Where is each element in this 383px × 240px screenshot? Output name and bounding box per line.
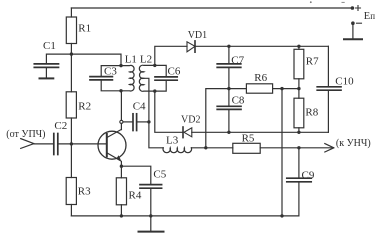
capacitor C6: [155, 77, 177, 80]
wire R3 bottom lead: [70, 205, 72, 216]
node collector ring: [120, 120, 123, 123]
wire R1 bottom lead: [70, 44, 72, 55]
wire C1 to ground: [45, 68, 47, 78]
svg-text:R4: R4: [129, 190, 142, 202]
node supply minus terminal: [351, 21, 355, 25]
ground bottom: [139, 231, 164, 233]
node C4 tap junction: [147, 120, 150, 123]
wire C3 loop: [101, 66, 121, 91]
svg-text:VD1: VD1: [188, 30, 207, 41]
svg-text:VD2: VD2: [181, 115, 200, 126]
wire ring to C4: [123, 121, 133, 123]
svg-text:C4: C4: [133, 101, 146, 113]
svg-text:C7: C7: [231, 54, 244, 66]
wire C9 bottom lead: [298, 182, 300, 216]
wire VD2 to right corner: [192, 131, 329, 133]
wire node to R2: [70, 54, 72, 92]
node takeoff to L3 wire: [204, 146, 207, 149]
wire C1 branch: [46, 54, 71, 63]
wire emitter to R4: [120, 166, 122, 178]
wire bleeder down to ground rail: [281, 89, 283, 216]
wire R7 top lead: [298, 46, 300, 49]
wire VD1 to right: [195, 45, 328, 47]
node base junction: [70, 142, 73, 145]
plus sign: [356, 6, 361, 11]
wire bottom ground rail: [71, 215, 299, 217]
node bleeder junction: [280, 87, 283, 90]
svg-text:R6: R6: [254, 72, 267, 84]
wire R6 right lead: [273, 88, 299, 90]
node R8 bottom junction: [297, 131, 300, 134]
minus sign: [357, 22, 362, 24]
wire R8 bottom lead: [298, 128, 300, 133]
wire R6 left lead: [229, 88, 247, 90]
svg-text:R3: R3: [78, 186, 91, 198]
svg-text:C2: C2: [54, 120, 67, 132]
capacitor C2: [54, 134, 58, 155]
wire tank2 bottom to VD2: [155, 91, 183, 132]
wire C5 bottom lead: [150, 189, 152, 216]
resistor R5: [233, 143, 260, 153]
resistor R6: [246, 84, 272, 93]
node R1/C1/R2 junction: [70, 52, 73, 55]
node bleeder at rail: [280, 214, 283, 217]
node C5 at rail: [149, 214, 152, 217]
inductor L1: [121, 65, 134, 91]
output arrow: [325, 144, 334, 152]
wire R2 bottom lead: [70, 118, 72, 144]
node tank2 top: [153, 64, 156, 67]
wire tank2 top to VD1: [155, 46, 187, 65]
node tank2 bottom: [153, 89, 156, 92]
scan speck: [342, 1, 344, 3]
node R4 at rail: [120, 214, 123, 217]
svg-text:C10: C10: [335, 75, 354, 87]
wire tap to L2 center: [144, 78, 149, 122]
wire audio takeoff from C7/C8 node: [206, 89, 229, 148]
wire input to C2: [34, 143, 54, 145]
wire C6 branch: [155, 65, 166, 91]
node C7 top junction: [227, 45, 230, 48]
wire top supply rail: [71, 7, 352, 9]
node tank1 bottom: [119, 89, 122, 92]
wire R7 bottom lead: [298, 79, 300, 89]
svg-text:C5: C5: [153, 169, 166, 181]
capacitor C1: [34, 64, 58, 68]
svg-text:Еп: Еп: [364, 11, 375, 22]
capacitor C8: [217, 89, 241, 133]
capacitor C4: [133, 114, 137, 131]
capacitor C10: [317, 87, 341, 90]
svg-text:C6: C6: [168, 66, 181, 78]
svg-text:R8: R8: [305, 107, 318, 119]
resistor R7: [294, 49, 304, 79]
svg-text:L3: L3: [166, 135, 179, 147]
resistor R2: [66, 92, 76, 118]
wire tap down to L3: [149, 122, 163, 148]
svg-text:R1: R1: [78, 23, 91, 35]
capacitor C9: [287, 178, 311, 182]
inductor L3: [163, 148, 192, 153]
node R7 top junction: [297, 45, 300, 48]
svg-text:C1: C1: [43, 40, 56, 52]
resistor R4: [116, 178, 126, 205]
wire R1 top lead: [70, 8, 72, 17]
input arrow: [21, 139, 34, 149]
node R6/R7/R8 junction: [297, 87, 300, 90]
svg-text:C9: C9: [302, 170, 315, 182]
resistor R1: [66, 17, 76, 44]
wire C2 to base: [58, 143, 107, 145]
svg-text:R5: R5: [242, 132, 255, 144]
svg-text:L2: L2: [140, 54, 152, 66]
node emitter junction: [120, 165, 123, 168]
svg-text:L1: L1: [125, 54, 137, 66]
resistor R8: [294, 98, 304, 128]
capacitor C3: [90, 77, 112, 80]
node supply plus terminal: [351, 6, 355, 10]
wire C9 top lead: [298, 148, 300, 178]
node C8 bottom junction: [227, 131, 230, 134]
node C7/C8 junction: [227, 87, 230, 90]
ground power: [344, 38, 362, 40]
wire R4 bottom lead: [120, 205, 122, 216]
node tank1 top: [119, 64, 122, 67]
svg-text:(от УПЧ): (от УПЧ): [6, 129, 45, 140]
wire R5 to output: [260, 147, 333, 149]
svg-text:R2: R2: [78, 101, 91, 113]
wire right rail down to C10: [327, 46, 329, 86]
wire emitter to C5: [121, 166, 150, 184]
wire C4 to tap node: [137, 121, 149, 123]
svg-text:C8: C8: [232, 95, 245, 107]
wire node to R3: [70, 144, 72, 178]
wire C10 down to bottom wire: [327, 91, 329, 133]
wire minus to ground: [352, 23, 354, 38]
svg-text:R7: R7: [306, 56, 319, 68]
wire R8 top lead: [298, 89, 300, 99]
diode VD1: [187, 41, 195, 52]
wire supply to tank top: [71, 54, 121, 66]
transistor VT1: [98, 123, 126, 166]
resistor R3: [66, 178, 76, 205]
scan speck: [310, 1, 312, 3]
wire L3 to R5: [191, 147, 232, 149]
capacitor C7: [217, 46, 241, 88]
node C9 top junction: [297, 146, 300, 149]
capacitor C5: [140, 185, 162, 189]
diode VD2: [183, 127, 192, 138]
inductor L2: [139, 65, 154, 91]
svg-text:(к УНЧ): (к УНЧ): [336, 138, 371, 149]
wire collector to tank: [120, 91, 122, 121]
svg-text:C3: C3: [104, 66, 117, 78]
ground under C1: [40, 77, 54, 79]
wire rail to ground: [150, 216, 152, 231]
